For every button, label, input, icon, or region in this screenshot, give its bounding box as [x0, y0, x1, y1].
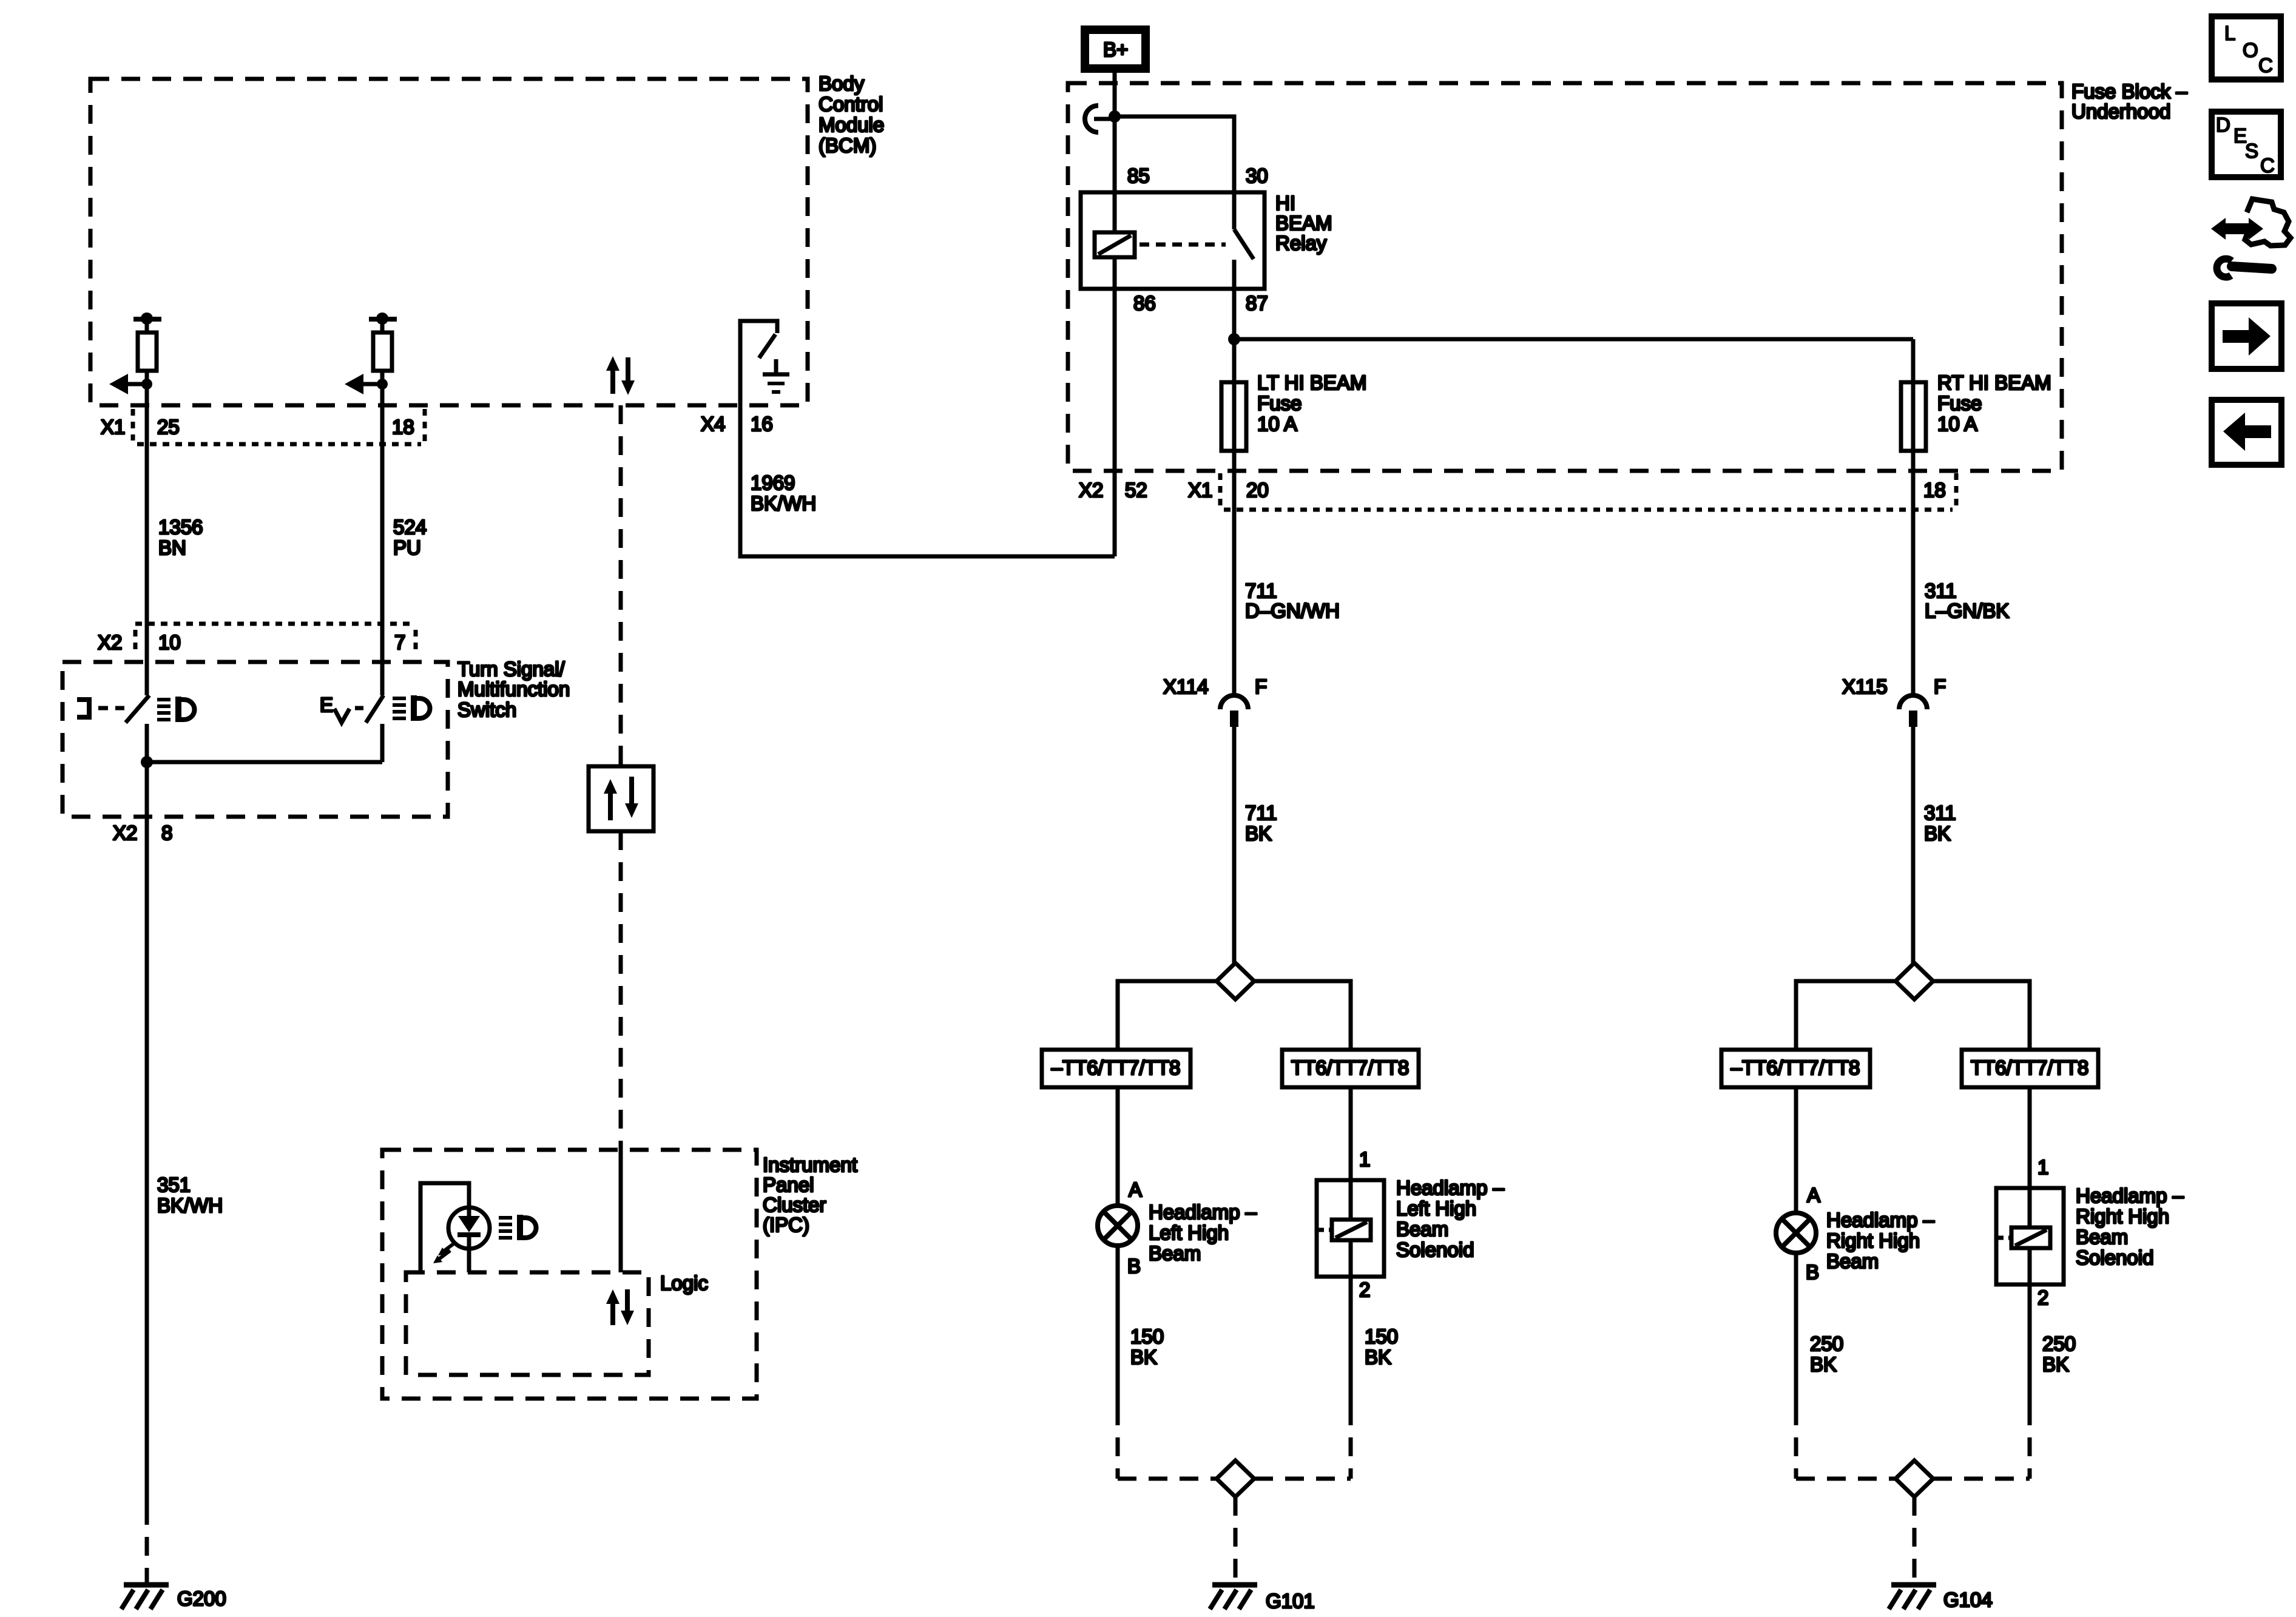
svg-text:Right High: Right High	[2076, 1205, 2169, 1227]
svg-text:BK: BK	[1810, 1353, 1837, 1376]
dashed actuator link left	[98, 706, 124, 711]
label: LT HI BEAM Fuse 10 A	[1257, 371, 1366, 435]
ground G104	[1889, 1585, 1936, 1609]
wire: BCM X1-18 to turn signal switch (circuit 524 PU)	[380, 371, 385, 695]
module U1: Body Control Module (BCM) dashed border	[90, 79, 808, 405]
svg-text:Solenoid: Solenoid	[1396, 1238, 1474, 1261]
label terminal B	[1127, 1255, 1141, 1277]
label solenoid pin 1	[1359, 1148, 1370, 1170]
dashed ground bus to splice G104	[1796, 1477, 2030, 1481]
svg-text:–TT6/TT7/TT8: –TT6/TT7/TT8	[1731, 1056, 1860, 1079]
svg-text:Beam: Beam	[1826, 1250, 1879, 1272]
svg-text:10: 10	[158, 631, 181, 653]
label circuit 351 BK/WH	[157, 1173, 223, 1217]
svg-text:85: 85	[1127, 164, 1150, 187]
wire: relay pin 87 to fuses	[1228, 260, 1913, 382]
wire: to right headlamp bulb	[1794, 1087, 1798, 1213]
svg-text:X2: X2	[113, 822, 137, 844]
dimmer position symbol E/v	[320, 694, 349, 723]
svg-text:BK: BK	[1365, 1346, 1391, 1368]
svg-text:LT HI BEAM: LT HI BEAM	[1257, 371, 1366, 394]
icon: forward arrow box	[2212, 303, 2281, 369]
label: Headlamp - Right High Beam	[1826, 1209, 1935, 1272]
svg-text:BN: BN	[158, 536, 186, 559]
ground G200	[121, 1585, 169, 1609]
dashed wire to ground G101	[1234, 1497, 1238, 1583]
relay K1: HI BEAM Relay box	[1081, 192, 1264, 289]
lamp E2: Headlamp - Right High Beam	[1776, 1213, 1816, 1253]
svg-text:8: 8	[161, 822, 172, 844]
label G101	[1266, 1590, 1315, 1612]
svg-text:X115: X115	[1842, 675, 1888, 698]
label circuit 250 BK (left)	[1810, 1332, 1843, 1376]
label circuit 1969 BK/WH	[751, 471, 816, 515]
svg-text:Headlamp –: Headlamp –	[1149, 1201, 1257, 1223]
wire: B+ into fuse block	[1109, 73, 1121, 232]
wire: BCM X1-25 to turn signal switch (circuit 1356 BN)	[145, 371, 149, 695]
svg-text:E: E	[320, 694, 333, 716]
svg-text:Body: Body	[819, 72, 865, 95]
label X2 pin 8	[113, 822, 172, 844]
takeout box -TT6/TT7/TT8 (right side, left)	[1721, 1050, 1870, 1087]
label G200	[177, 1587, 226, 1610]
svg-text:X1: X1	[101, 416, 125, 438]
takeout box -TT6/TT7/TT8 (left)	[1042, 1050, 1190, 1087]
svg-text:A: A	[1807, 1184, 1820, 1206]
svg-text:10 A: 10 A	[1257, 413, 1297, 435]
battery feed B+ terminal box	[1085, 30, 1146, 69]
headlamp beam icon (right pole)	[393, 695, 430, 721]
svg-text:524: 524	[393, 516, 427, 538]
LED emission arrows	[433, 1243, 455, 1263]
label: Headlamp - Right High Beam Solenoid	[2076, 1184, 2184, 1269]
label: RT HI BEAM Fuse 10 A	[1937, 371, 2051, 435]
serial data symbol box	[589, 766, 653, 831]
label G104	[1943, 1588, 1993, 1611]
svg-text:HI: HI	[1275, 192, 1295, 214]
svg-text:Left High: Left High	[1149, 1221, 1229, 1244]
svg-text:25: 25	[157, 416, 180, 438]
signal arrow (left, BCM input 25)	[109, 374, 152, 394]
svg-text:BK: BK	[2042, 1353, 2069, 1376]
label B+	[1103, 38, 1128, 61]
svg-text:(IPC): (IPC)	[763, 1214, 809, 1236]
svg-text:F: F	[1255, 675, 1267, 698]
wire: to left headlamp bulb	[1116, 1087, 1120, 1206]
splice diamond (right circuit)	[1896, 963, 1933, 999]
svg-text:10 A: 10 A	[1937, 413, 1977, 435]
label circuit 150 BK (left)	[1130, 1325, 1164, 1368]
svg-text:16: 16	[751, 413, 773, 435]
label circuit 150 BK (right)	[1365, 1325, 1398, 1368]
svg-text:Beam: Beam	[1396, 1218, 1448, 1240]
signal arrow (right, BCM input 18)	[345, 374, 388, 394]
label circuit 311 BK	[1924, 802, 1956, 845]
svg-text:L–GN/BK: L–GN/BK	[1925, 599, 2009, 622]
label circuit 524 PU	[393, 516, 427, 559]
svg-text:87: 87	[1246, 292, 1268, 314]
label pin 86	[1133, 292, 1156, 314]
takeout box TT6/TT7/TT8 (right side, right)	[1962, 1050, 2098, 1087]
label: Body Control Module (BCM)	[819, 72, 884, 157]
svg-text:2: 2	[2038, 1286, 2048, 1309]
wire: left solenoid to ground splice (circuit 150 BK)	[1349, 1277, 1353, 1479]
wire: splice to right branch	[1254, 981, 1351, 1050]
svg-text:B+: B+	[1103, 38, 1128, 61]
dashed ground bus to splice G101	[1118, 1477, 1351, 1481]
wire: relay pin 86 down through X2-52	[1113, 257, 1117, 556]
wire: B+ junction to relay pin 30	[1115, 116, 1234, 229]
resistor R2 (BCM pull-up, right)	[369, 312, 397, 371]
connector X115 pin F	[1899, 695, 1927, 727]
label: Headlamp - Left High Beam Solenoid	[1396, 1176, 1505, 1261]
switch blade (headlamp dimmer, right pole)	[366, 695, 383, 723]
module: Fuse Block - Underhood dashed border	[1068, 83, 2062, 471]
svg-text:18: 18	[392, 416, 414, 438]
svg-text:1: 1	[1359, 1148, 1370, 1170]
fuse F1: LT HI BEAM Fuse 10 A	[1221, 382, 1246, 451]
label circuit 711 D-GN/WH	[1245, 579, 1340, 622]
wire: splice to left branch	[1118, 981, 1217, 1050]
label solenoid pin 2	[1359, 1278, 1370, 1301]
label X2 pin 10 pin 7	[98, 631, 405, 653]
switch S1: BCM internal driver to ground (X4-16)	[740, 321, 777, 358]
svg-text:Cluster: Cluster	[763, 1193, 826, 1216]
label X1 pin 25 pin 18	[101, 416, 414, 438]
icon: DESC reference box	[2212, 112, 2281, 177]
svg-text:RT HI BEAM: RT HI BEAM	[1937, 371, 2051, 394]
wire: circuit 311 BK to splice	[1911, 727, 1916, 963]
svg-text:250: 250	[2042, 1332, 2076, 1355]
connector X1 of BCM (pins 25 / 18) dotted box	[133, 409, 425, 444]
wire: right solenoid to ground splice (circuit 250 BK)	[2028, 1284, 2032, 1479]
svg-text:Underhood: Underhood	[2071, 100, 2170, 123]
label: HI BEAM Relay	[1275, 192, 1332, 254]
serial data arrows inside logic	[606, 1289, 634, 1325]
wire: serial data BCM to IPC (dashed)	[619, 405, 623, 766]
svg-text:Switch: Switch	[458, 698, 516, 721]
lamp E1: Headlamp - Left High Beam	[1098, 1206, 1138, 1246]
svg-text:B: B	[1806, 1261, 1819, 1283]
svg-text:(BCM): (BCM)	[819, 134, 876, 157]
svg-text:A: A	[1129, 1178, 1142, 1201]
svg-text:Headlamp –: Headlamp –	[2076, 1184, 2184, 1207]
svg-text:X4: X4	[701, 413, 725, 435]
label terminal B (right)	[1806, 1261, 1819, 1283]
svg-text:2: 2	[1359, 1278, 1370, 1301]
icon: LOC reference box	[2212, 16, 2281, 79]
svg-text:711: 711	[1245, 579, 1277, 602]
svg-text:BK: BK	[1924, 822, 1951, 845]
label pin 87	[1246, 292, 1268, 314]
label circuit 711 BK	[1245, 802, 1277, 845]
svg-text:351: 351	[157, 1173, 191, 1196]
svg-text:Headlamp –: Headlamp –	[1396, 1176, 1505, 1199]
label pin 85	[1127, 164, 1150, 187]
svg-text:–TT6/TT7/TT8: –TT6/TT7/TT8	[1052, 1056, 1181, 1079]
dashed actuator link right	[355, 706, 365, 711]
svg-text:Fuse: Fuse	[1257, 392, 1302, 414]
solenoid L2: Headlamp - Right High Beam Solenoid	[1996, 1087, 2064, 1284]
LED D1: high beam indicator	[448, 1207, 490, 1249]
wire: right bulb to ground splice (circuit 250 BK)	[1794, 1253, 1798, 1479]
solenoid L1: Headlamp - Left High Beam Solenoid	[1317, 1087, 1384, 1277]
wire: serial data inside IPC to logic	[619, 1149, 623, 1272]
wire: LT fuse output (circuit 711 D-GN/WH)	[1232, 451, 1237, 695]
svg-text:52: 52	[1125, 479, 1147, 501]
dashed link coil to contact	[1140, 243, 1226, 247]
svg-text:Right High: Right High	[1826, 1229, 1920, 1252]
label: Instrument Panel Cluster (IPC)	[763, 1153, 857, 1236]
svg-text:Fuse Block –: Fuse Block –	[2071, 80, 2187, 103]
svg-text:711: 711	[1245, 802, 1277, 824]
wire: left bulb to ground splice (circuit 150 BK)	[1116, 1246, 1120, 1479]
svg-text:B: B	[1127, 1255, 1141, 1277]
svg-text:TT6/TT7/TT8: TT6/TT7/TT8	[1291, 1056, 1409, 1079]
svg-text:TT6/TT7/TT8: TT6/TT7/TT8	[1971, 1056, 2088, 1079]
svg-text:Turn Signal/: Turn Signal/	[458, 658, 566, 680]
svg-text:150: 150	[1365, 1325, 1398, 1348]
svg-text:Control: Control	[819, 93, 883, 115]
svg-text:X1: X1	[1188, 479, 1212, 501]
wire: splice to right branch (right side)	[1933, 981, 2030, 1050]
logic block dashed box	[406, 1272, 649, 1375]
module: Instrument Panel Cluster (IPC) dashed border	[382, 1150, 757, 1399]
wire: circuit 1969 BK/WH from BCM X4-16 to relay 86	[740, 330, 1115, 556]
relay coil	[1095, 232, 1135, 257]
wire: serial data continues to IPC (dashed)	[619, 831, 623, 1149]
label X1 pin 20 pin 18	[1188, 479, 1946, 501]
svg-text:C: C	[2258, 54, 2273, 76]
svg-text:Fuse: Fuse	[1937, 392, 1982, 414]
label terminal A	[1129, 1178, 1142, 1201]
svg-text:BK: BK	[1130, 1346, 1157, 1368]
svg-text:BEAM: BEAM	[1275, 212, 1332, 234]
svg-text:Instrument: Instrument	[763, 1153, 857, 1176]
svg-text:311: 311	[1924, 802, 1956, 824]
svg-text:Logic: Logic	[660, 1272, 708, 1294]
module S2: Turn Signal / Multifunction Switch dashed border	[62, 662, 448, 817]
splice diamond (left circuit)	[1217, 963, 1254, 999]
svg-text:G200: G200	[177, 1587, 226, 1610]
resistor R1 (BCM pull-up, left)	[133, 312, 161, 371]
label terminal A (right)	[1807, 1184, 1820, 1206]
svg-text:20: 20	[1246, 479, 1269, 501]
svg-text:L: L	[2224, 22, 2235, 44]
wire: splice to left branch (right side)	[1796, 981, 1896, 1050]
svg-text:Multifunction: Multifunction	[458, 678, 570, 700]
svg-text:X2: X2	[98, 631, 122, 653]
label: Headlamp - Left High Beam	[1149, 1201, 1257, 1264]
svg-text:PU: PU	[393, 536, 421, 559]
svg-text:D: D	[2216, 113, 2230, 136]
svg-text:86: 86	[1133, 292, 1156, 314]
svg-text:Left High: Left High	[1396, 1197, 1476, 1220]
takeout box TT6/TT7/TT8 (right)	[1282, 1050, 1419, 1087]
serial data arrows at BCM bottom	[606, 356, 635, 395]
dashed wire to ground G104	[1913, 1497, 1917, 1583]
svg-text:BK/WH: BK/WH	[157, 1194, 223, 1217]
headlamp beam icon (IPC indicator)	[499, 1215, 536, 1240]
label solenoid pin 2 (right)	[2038, 1286, 2048, 1309]
svg-text:1969: 1969	[751, 471, 795, 494]
headlamp beam icon (left pole)	[157, 697, 195, 722]
svg-text:Beam: Beam	[2076, 1226, 2128, 1248]
svg-text:X114: X114	[1163, 675, 1209, 698]
wire: circuit 711 BK to splice	[1232, 727, 1237, 963]
svg-text:30: 30	[1246, 164, 1268, 187]
connector X1 of fuse block (pins 20 / 18) dotted box	[1220, 473, 1956, 510]
label: Fuse Block - Underhood	[2071, 80, 2187, 123]
wire: RT fuse output (circuit 311 L-GN/BK)	[1911, 451, 1916, 695]
svg-text:18: 18	[1923, 479, 1946, 501]
contact bracket (flash-to-pass position)	[77, 700, 89, 717]
label circuit 250 BK (right)	[2042, 1332, 2076, 1376]
svg-text:X2: X2	[1079, 479, 1103, 501]
svg-text:G104: G104	[1943, 1588, 1993, 1611]
label: Logic	[660, 1272, 708, 1294]
fuse F2: RT HI BEAM Fuse 10 A	[1901, 382, 1926, 451]
svg-text:BK: BK	[1245, 822, 1272, 845]
svg-text:Panel: Panel	[763, 1173, 814, 1196]
connector X2 of turn signal switch (pins 10 / 7) dotted line	[135, 624, 416, 653]
svg-text:1356: 1356	[158, 516, 203, 538]
icon: back arrow box	[2212, 400, 2281, 465]
splice diamond (ground, left circuit)	[1217, 1460, 1254, 1497]
svg-text:C: C	[2260, 154, 2275, 177]
svg-text:1: 1	[2038, 1156, 2048, 1178]
splice arc at B+ junction	[1085, 106, 1115, 132]
wire: LED indicator loop	[420, 1183, 469, 1272]
label solenoid pin 1 (right)	[2038, 1156, 2048, 1178]
label pin 30	[1246, 164, 1268, 187]
label circuit 311 L-GN/BK	[1925, 579, 2009, 622]
wire: switch X2-8 to ground (circuit 351 BK/WH)	[145, 762, 149, 1584]
svg-text:311: 311	[1925, 579, 1957, 602]
svg-text:Module: Module	[819, 113, 884, 136]
svg-text:D–GN/WH: D–GN/WH	[1245, 599, 1340, 622]
svg-text:Beam: Beam	[1149, 1242, 1201, 1264]
svg-text:Solenoid: Solenoid	[2076, 1246, 2153, 1269]
connector X114 pin F	[1220, 695, 1248, 727]
splice diamond (ground, right circuit)	[1896, 1460, 1933, 1497]
label X2 pin 52	[1079, 479, 1147, 501]
svg-text:BK/WH: BK/WH	[751, 492, 816, 515]
svg-text:O: O	[2243, 39, 2258, 61]
label: Turn Signal / Multifunction Switch	[458, 658, 570, 721]
icon: diagnostic tool (double arrow, outline, wrench)	[2211, 199, 2291, 277]
svg-text:F: F	[1934, 675, 1946, 698]
wire: switch common joining both poles	[141, 724, 382, 768]
svg-text:S: S	[2245, 140, 2258, 162]
svg-text:7: 7	[394, 631, 405, 653]
ground G101	[1210, 1585, 1257, 1609]
ground symbol inside BCM	[763, 359, 789, 392]
relay contact blade	[1234, 229, 1254, 259]
svg-text:Relay: Relay	[1275, 232, 1327, 254]
label X114 F	[1163, 675, 1267, 698]
svg-text:150: 150	[1130, 1325, 1164, 1348]
label X4 pin 16	[701, 413, 773, 435]
switch blade (headlamp dimmer, left pole)	[126, 695, 149, 723]
svg-text:Headlamp –: Headlamp –	[1826, 1209, 1935, 1231]
label circuit 1356 BN	[158, 516, 203, 559]
svg-text:250: 250	[1810, 1332, 1843, 1355]
svg-text:G101: G101	[1266, 1590, 1315, 1612]
label X115 F	[1842, 675, 1946, 698]
